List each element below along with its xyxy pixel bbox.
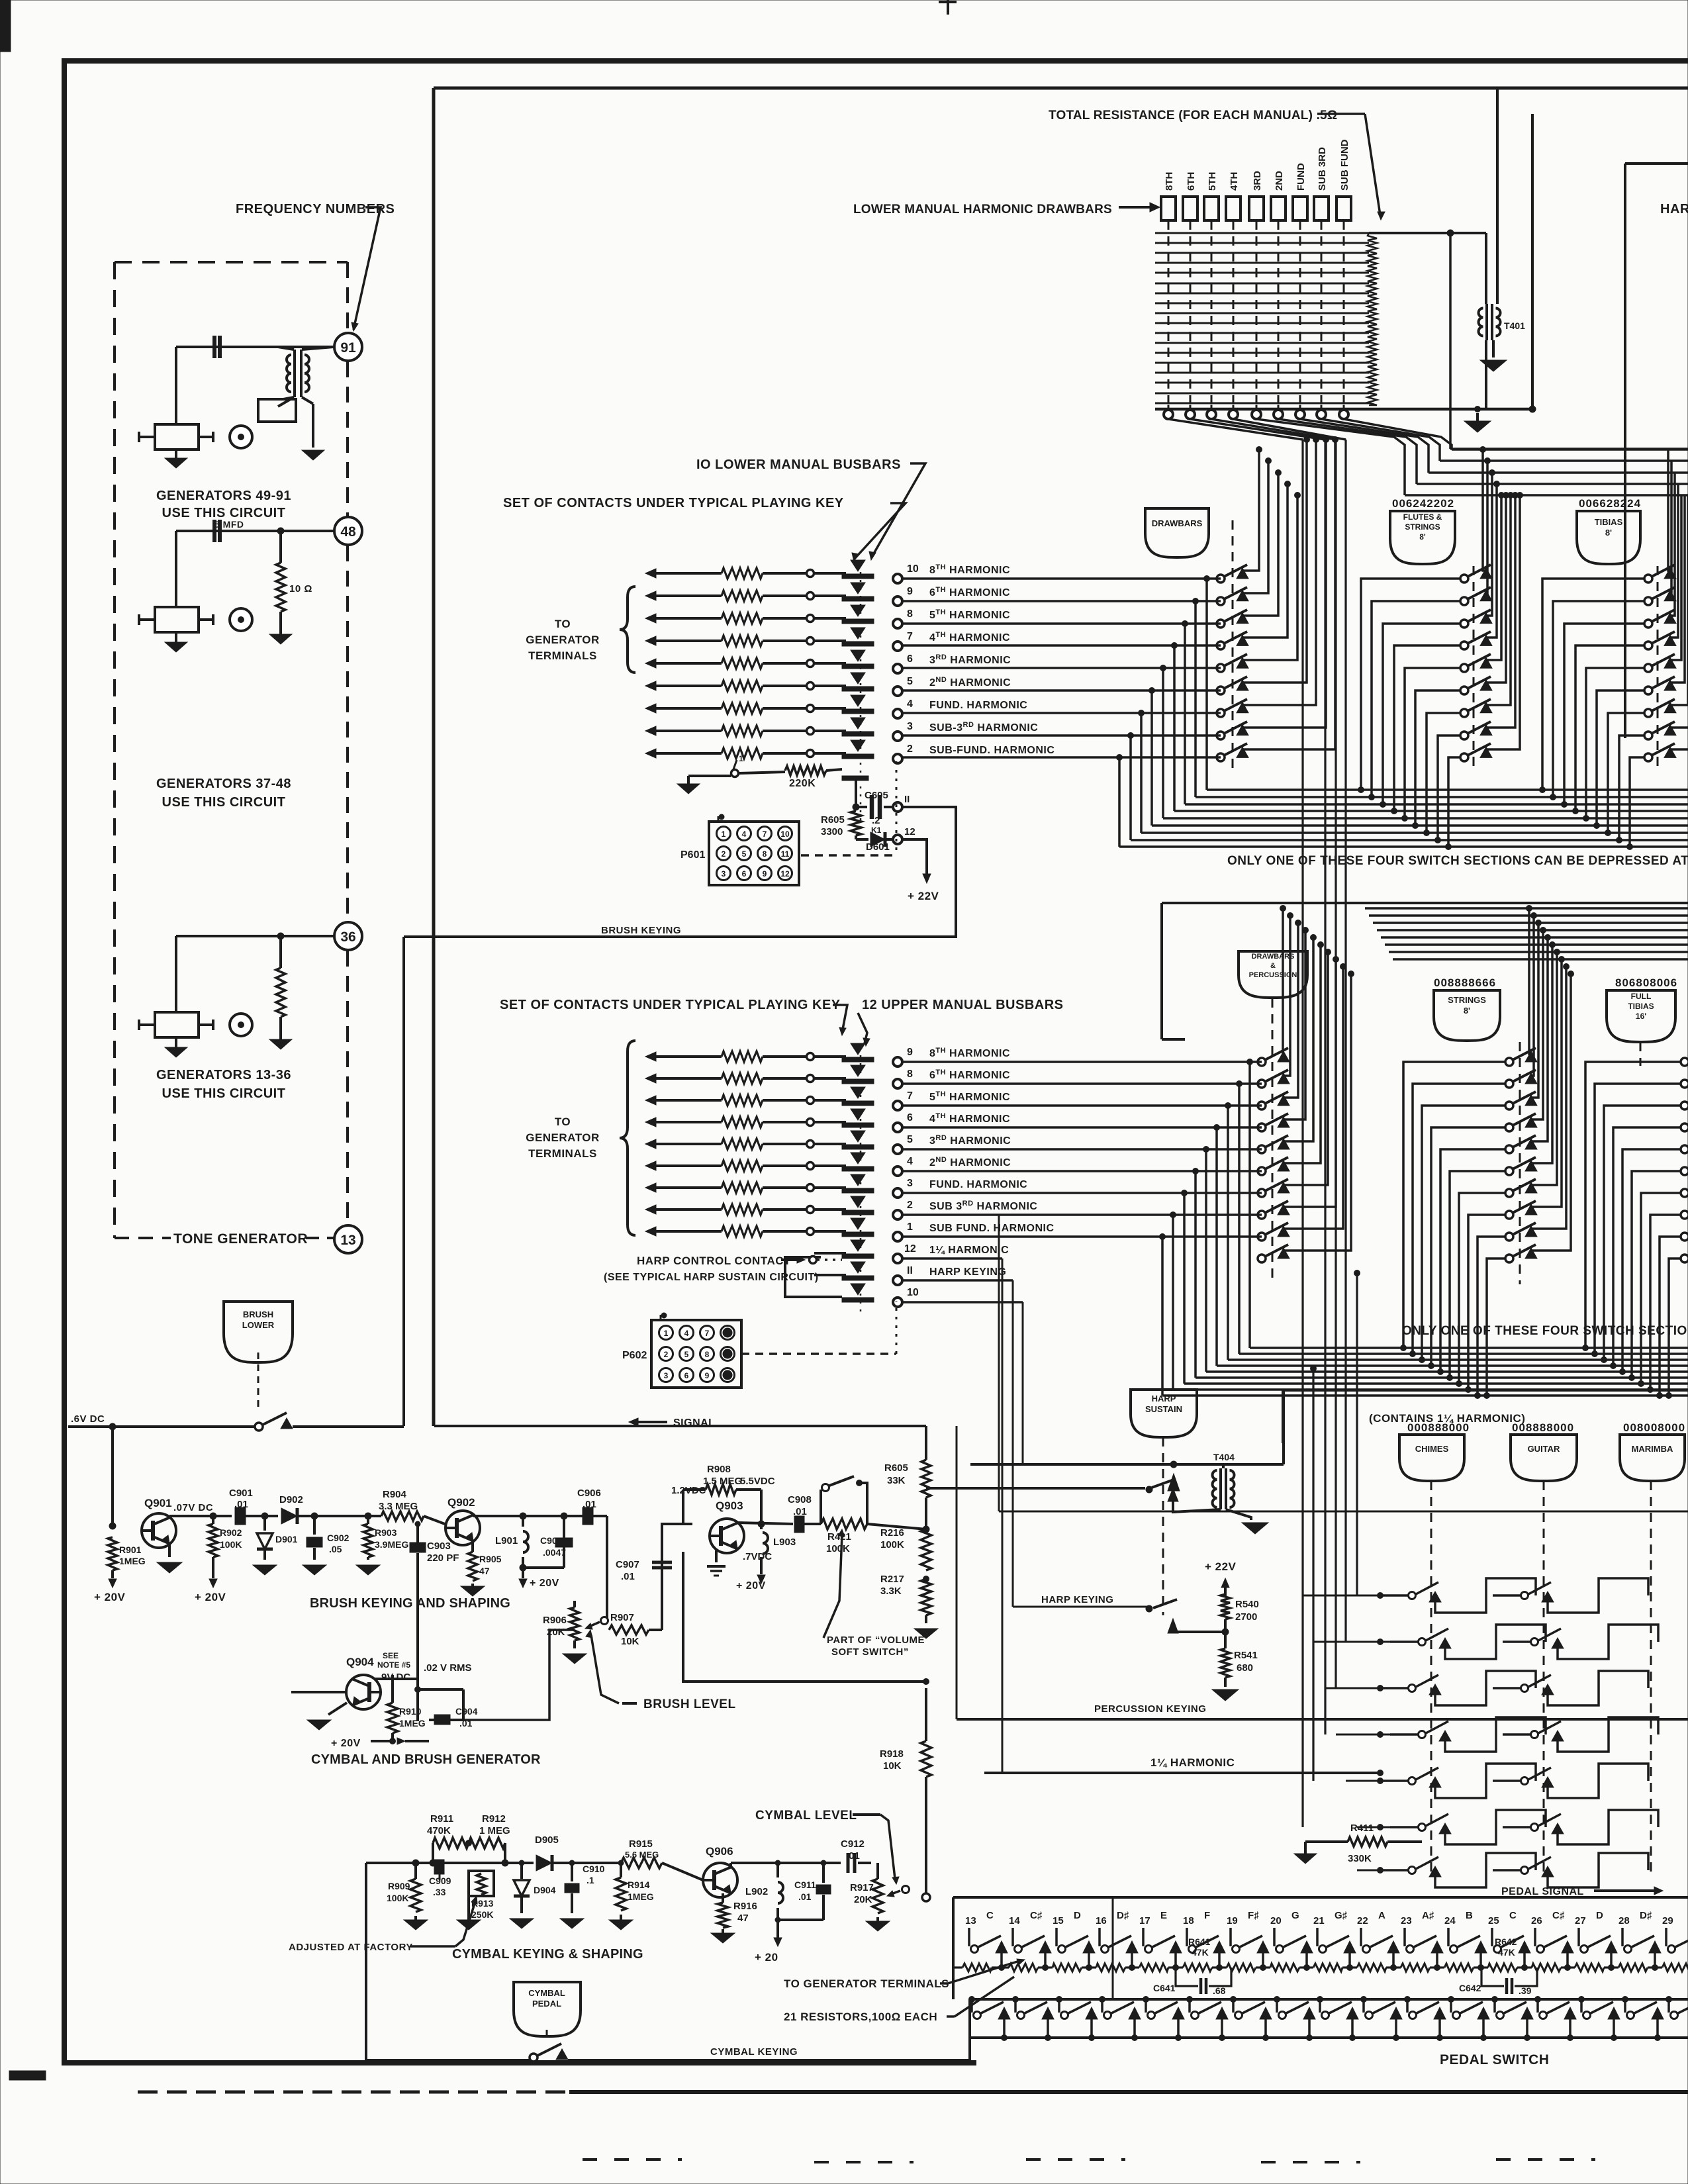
inductor L901 xyxy=(520,1513,526,1519)
svg-text:15: 15 xyxy=(1053,1915,1064,1926)
svg-text:TONE GENERATOR: TONE GENERATOR xyxy=(173,1231,308,1247)
svg-text:C910: C910 xyxy=(583,1864,605,1874)
wire Q903 collector xyxy=(738,1523,793,1524)
drawbar labels 8TH..SUB FUND (rotated) xyxy=(1164,172,1175,191)
svg-text:7: 7 xyxy=(907,1090,913,1102)
svg-text:R917: R917 xyxy=(850,1882,874,1893)
svg-text:MARIMBA: MARIMBA xyxy=(1632,1444,1673,1454)
Q902 collector to L901 C906 xyxy=(471,1514,473,1516)
svg-text:R918: R918 xyxy=(880,1748,904,1760)
upper manual contacts TO GENERATOR TERMINALS brace xyxy=(620,1041,635,1235)
page bottom rule xyxy=(138,2091,569,2094)
svg-text:8': 8' xyxy=(1419,532,1426,542)
svg-text:+ 22V: + 22V xyxy=(908,890,939,902)
svg-text:36: 36 xyxy=(340,929,355,945)
svg-text:47: 47 xyxy=(479,1566,490,1576)
svg-text:G♯: G♯ xyxy=(1335,1910,1348,1921)
svg-text:.05: .05 xyxy=(329,1544,342,1554)
svg-text:16: 16 xyxy=(1096,1915,1107,1926)
svg-text:680: 680 xyxy=(1237,1662,1253,1674)
svg-text:28: 28 xyxy=(1618,1915,1630,1926)
svg-text:R914: R914 xyxy=(628,1879,650,1890)
node 48 dashed net xyxy=(346,361,349,516)
svg-text:9: 9 xyxy=(907,586,913,597)
svg-text:Q906: Q906 xyxy=(706,1845,733,1858)
svg-text:+ 20V: + 20V xyxy=(195,1591,226,1603)
svg-text:SUB-3RD HARMONIC: SUB-3RD HARMONIC xyxy=(929,721,1038,734)
+20V arrow Q904 xyxy=(371,1740,393,1742)
svg-text:C605: C605 xyxy=(865,790,888,801)
svg-text:LOWER MANUAL HARMONIC DRAWB: LOWER MANUAL HARMONIC DRAWBARS xyxy=(853,203,1112,216)
svg-text:TIBIAS: TIBIAS xyxy=(1595,517,1623,527)
node circle 48 xyxy=(334,517,362,545)
node 36 dashed net xyxy=(346,546,349,922)
svg-text:GENERATOR: GENERATOR xyxy=(526,1131,600,1144)
wire brush keying xyxy=(402,937,405,1426)
svg-text:B: B xyxy=(1466,1910,1473,1921)
resistor R916 47 xyxy=(722,1893,724,1903)
svg-text:3.3K: 3.3K xyxy=(880,1586,902,1597)
svg-text:91: 91 xyxy=(340,340,356,356)
T404 primary top line xyxy=(970,1463,1284,1466)
svg-text:P601: P601 xyxy=(680,849,705,861)
svg-text:12 UPPER MANUAL BUSBARS: 12 UPPER MANUAL BUSBARS xyxy=(862,998,1064,1012)
svg-text:R541: R541 xyxy=(1234,1650,1258,1661)
+20 arrow under L902 xyxy=(776,1920,779,1938)
supply rail .6VDC to Q901 base xyxy=(111,1427,114,1523)
svg-text:PART OF “VOLUME: PART OF “VOLUME xyxy=(827,1635,925,1646)
diode D901 xyxy=(261,1513,268,1519)
svg-text:12: 12 xyxy=(904,826,915,837)
resistor R216 100K xyxy=(923,1526,929,1533)
svg-text:C♯: C♯ xyxy=(1552,1910,1565,1921)
svg-text:USE THIS CIRCUIT: USE THIS CIRCUIT xyxy=(162,795,286,810)
flutes bank output risers xyxy=(1483,450,1486,571)
svg-text:SOFT SWITCH”: SOFT SWITCH” xyxy=(831,1646,909,1658)
svg-text:C901: C901 xyxy=(229,1488,253,1499)
svg-text:.33: .33 xyxy=(433,1887,446,1897)
svg-text:10: 10 xyxy=(907,1287,919,1298)
pedal switch row 2 top bus xyxy=(970,1998,1688,2001)
svg-text:008008000: 008008000 xyxy=(1623,1421,1685,1434)
generator circuit 49-91 (oscillator, transformer, pickup) xyxy=(176,346,334,348)
resistor R909 100K xyxy=(412,1860,419,1866)
svg-text:.01: .01 xyxy=(793,1506,807,1517)
svg-text:IO LOWER MANUAL BUSBARS: IO LOWER MANUAL BUSBARS xyxy=(696,457,901,472)
svg-text:D904: D904 xyxy=(534,1885,556,1895)
svg-text:K1: K1 xyxy=(871,826,882,835)
resistor R903 3.9MEG xyxy=(365,1513,371,1519)
resistor R411 330K xyxy=(1294,1854,1317,1864)
svg-text:GENERATOR: GENERATOR xyxy=(526,634,600,646)
svg-text:D♯: D♯ xyxy=(1117,1910,1129,1921)
svg-text:.0047: .0047 xyxy=(543,1547,566,1558)
brush lower keying switch xyxy=(68,1425,255,1428)
border frame left xyxy=(62,61,67,2064)
svg-text:D905: D905 xyxy=(535,1834,559,1846)
upper manual contact row 11 xyxy=(851,1262,865,1273)
svg-text:D: D xyxy=(1596,1910,1603,1921)
resistor R605 3300 xyxy=(851,811,861,835)
svg-text:.02 V RMS: .02 V RMS xyxy=(424,1662,472,1674)
svg-text:4: 4 xyxy=(742,830,747,839)
svg-text:4TH: 4TH xyxy=(1229,172,1240,191)
switch bank under TIBIAS xyxy=(1644,575,1652,583)
svg-text:PEDAL SIGNAL: PEDAL SIGNAL xyxy=(1501,1886,1584,1897)
svg-text:CYMBAL KEYING: CYMBAL KEYING xyxy=(710,2046,798,2058)
potentiometer R917 20K xyxy=(872,1879,883,1913)
svg-text:33K: 33K xyxy=(887,1475,906,1486)
pedal switch row 2 bottom bus xyxy=(970,2036,1688,2039)
svg-text:9: 9 xyxy=(705,1371,710,1380)
svg-text:19: 19 xyxy=(1227,1915,1238,1926)
svg-text:R642: R642 xyxy=(1495,1936,1517,1947)
svg-text:C912: C912 xyxy=(841,1838,865,1850)
upper manual contact row 9 xyxy=(645,1052,656,1061)
svg-text:Q901: Q901 xyxy=(144,1497,172,1509)
Q904 base feed xyxy=(291,1691,346,1693)
lower manual row feeds to banks xyxy=(902,577,1221,580)
svg-text:1: 1 xyxy=(664,1329,669,1338)
svg-text:R540: R540 xyxy=(1235,1599,1259,1610)
svg-text:100K: 100K xyxy=(880,1539,904,1550)
lower manual contact row 7 (4THHARMONIC) xyxy=(645,636,656,645)
svg-text:10 Ω: 10 Ω xyxy=(289,583,312,594)
pickup coil symbol G1 xyxy=(230,426,252,448)
svg-text:12: 12 xyxy=(780,869,790,878)
svg-text:DRAWBARS: DRAWBARS xyxy=(1252,953,1295,961)
connector P602 xyxy=(651,1320,741,1388)
svg-text:GENERATORS 37-48: GENERATORS 37-48 xyxy=(156,777,291,791)
upper harmonic bus lines from upper drawbar matrix xyxy=(1365,907,1688,910)
main brush line xyxy=(169,1515,232,1517)
svg-text:12: 12 xyxy=(904,1243,916,1255)
svg-text:D: D xyxy=(1074,1910,1081,1921)
svg-text:+ 20V: + 20V xyxy=(736,1580,766,1591)
svg-text:A♯: A♯ xyxy=(1422,1910,1434,1921)
leader frequency numbers to node 91 xyxy=(353,207,381,330)
svg-text:+ 20V: + 20V xyxy=(331,1738,361,1749)
label TONE GENERATOR xyxy=(115,1237,171,1239)
switch bank under STRINGS xyxy=(1505,1058,1513,1066)
svg-text:100K: 100K xyxy=(220,1539,242,1550)
svg-text:16': 16' xyxy=(1636,1012,1646,1021)
capacitor C910 .1 xyxy=(569,1860,575,1866)
svg-text:R217: R217 xyxy=(880,1574,904,1585)
svg-text:10K: 10K xyxy=(621,1636,639,1647)
transformer T-osc xyxy=(293,350,296,397)
svg-text:.2: .2 xyxy=(872,815,880,826)
percussion section top boundary xyxy=(1283,1389,1688,1392)
full tibias bank input risers xyxy=(1583,1345,1589,1351)
drawbar matrix right resistance zig-zag xyxy=(1368,233,1377,405)
svg-text:T401: T401 xyxy=(1504,320,1525,331)
resistor R905 47 xyxy=(471,1543,474,1552)
svg-text:L903: L903 xyxy=(773,1537,796,1548)
svg-text:SEE: SEE xyxy=(383,1651,399,1660)
percussion keying tap xyxy=(1173,1631,1225,1633)
svg-text:Q903: Q903 xyxy=(716,1499,743,1512)
svg-text:ADJUSTED AT FACTORY: ADJUSTED AT FACTORY xyxy=(289,1942,413,1953)
upper manual contact row 6 xyxy=(645,1117,656,1127)
svg-text:SIGNAL: SIGNAL xyxy=(673,1417,715,1429)
volume soft switch xyxy=(820,1490,822,1524)
svg-text:000888000: 000888000 xyxy=(1407,1421,1470,1434)
Q904 collector to vertical from C903 xyxy=(375,1678,418,1680)
node 13 dashed net xyxy=(346,951,349,1225)
svg-text:STRINGS: STRINGS xyxy=(1448,995,1486,1005)
lower manual key contacts TO GENERATOR TERMINALS brace xyxy=(620,587,635,673)
svg-text:R915: R915 xyxy=(629,1838,653,1850)
svg-text:HAR: HAR xyxy=(1660,202,1688,216)
switch bank under FLUTES & STRINGS xyxy=(1460,575,1468,583)
lower manual contact row 6 (3RDHARMONIC) xyxy=(645,659,656,668)
svg-text:29: 29 xyxy=(1662,1915,1673,1926)
svg-text:SUB FUND: SUB FUND xyxy=(1339,139,1350,191)
lower manual taps to collector bundle xyxy=(1204,576,1210,582)
svg-text:9V DC: 9V DC xyxy=(381,1672,410,1683)
svg-text:GENERATORS 13-36: GENERATORS 13-36 xyxy=(156,1068,291,1082)
svg-text:13: 13 xyxy=(965,1915,976,1926)
potentiometer R913 250K xyxy=(468,1843,469,1871)
svg-text:R641: R641 xyxy=(1188,1936,1211,1947)
svg-text:DRAWBARS: DRAWBARS xyxy=(1152,518,1203,528)
upper switch section box xyxy=(1162,902,1688,904)
ground under oscillator xyxy=(302,450,324,460)
connector P601 xyxy=(709,822,799,885)
svg-text:3: 3 xyxy=(907,1178,913,1189)
svg-text:HARP: HARP xyxy=(1152,1394,1176,1403)
matrix feed vertical to .5 ohm xyxy=(1531,114,1534,409)
svg-text:3300: 3300 xyxy=(821,826,843,837)
svg-text:FUND: FUND xyxy=(1295,163,1307,191)
cymbal keying wire xyxy=(366,2059,530,2062)
svg-text:NOTE #5: NOTE #5 xyxy=(377,1660,410,1670)
label BRUSH LEVEL xyxy=(622,1702,637,1705)
svg-text:21 RESISTORS,100Ω EACH: 21 RESISTORS,100Ω EACH xyxy=(784,2011,937,2023)
lower manual contact row 2 (SUB-FUND.HARMONIC) xyxy=(645,749,656,758)
midline long feed verticals xyxy=(956,1426,958,1719)
lower manual contact row 3 (SUB-3RDHARMONIC) xyxy=(645,726,656,736)
capacitor C605 .2 xyxy=(856,806,867,808)
ground at matrix bus end xyxy=(1475,406,1481,412)
capacitor C911 .01 xyxy=(821,1860,826,1866)
svg-text:C906: C906 xyxy=(577,1488,601,1499)
svg-text:3.9MEG: 3.9MEG xyxy=(375,1539,408,1550)
svg-text:.6V DC: .6V DC xyxy=(71,1413,105,1425)
svg-text:C907: C907 xyxy=(616,1559,639,1570)
svg-text:R911: R911 xyxy=(430,1813,453,1825)
oscillator box xyxy=(258,399,296,422)
svg-text:7: 7 xyxy=(763,830,767,839)
svg-text:R912: R912 xyxy=(482,1813,506,1825)
svg-text:+ 22V: + 22V xyxy=(1205,1560,1237,1573)
svg-text:C: C xyxy=(986,1910,994,1921)
svg-text:R908: R908 xyxy=(707,1464,731,1475)
svg-text:C903: C903 xyxy=(427,1541,451,1552)
upper manual contact row 5 xyxy=(645,1139,656,1149)
svg-text:BRUSH: BRUSH xyxy=(243,1309,273,1319)
svg-text:CYMBAL: CYMBAL xyxy=(528,1988,565,1998)
svg-text:TO GENERATOR TERMINALS: TO GENERATOR TERMINALS xyxy=(784,1977,949,1990)
svg-text:SET OF CONTACTS UNDER TYPI: SET OF CONTACTS UNDER TYPICAL PLAYING KE… xyxy=(503,496,844,510)
svg-text:R901: R901 xyxy=(119,1544,142,1555)
ground under T401 xyxy=(1480,360,1507,371)
switch bank under DRAWBARS xyxy=(1217,575,1225,583)
svg-text:TO: TO xyxy=(555,618,571,630)
svg-text:R910: R910 xyxy=(399,1706,422,1717)
Q904 emitter ground xyxy=(328,1703,347,1715)
svg-text:HARP KEYING: HARP KEYING xyxy=(1041,1594,1113,1605)
strings bank input risers xyxy=(1401,1345,1407,1351)
tone generator dashed enclosure xyxy=(115,261,348,263)
upper manual busbar dotted line xyxy=(860,1047,862,1317)
svg-text:CYMBAL KEYING & SHAPING: CYMBAL KEYING & SHAPING xyxy=(452,1947,643,1962)
upper manual contact row 2 xyxy=(645,1205,656,1214)
switch bank under DRAWBARS & PERCUSSION xyxy=(1258,1058,1266,1066)
svg-text:.1: .1 xyxy=(586,1875,594,1885)
inductor L903 xyxy=(758,1521,765,1527)
capacitor C905 .0047 xyxy=(523,1566,564,1569)
svg-text:D902: D902 xyxy=(279,1494,303,1505)
svg-text:R916: R916 xyxy=(733,1901,757,1912)
svg-text:48: 48 xyxy=(340,524,356,540)
svg-text:.39: .39 xyxy=(1519,1985,1532,1996)
svg-text:250K: 250K xyxy=(471,1909,493,1920)
node 91 dashed net xyxy=(346,262,349,332)
svg-text:ONLY ONE OF THESE FOUR SWITC: ONLY ONE OF THESE FOUR SWITCH SECTIONS C… xyxy=(1227,854,1688,868)
diode D601 K1 xyxy=(855,835,857,839)
busbar net dashed to P601 xyxy=(896,761,898,855)
svg-text:3: 3 xyxy=(722,869,726,878)
resistor R914 1MEG xyxy=(618,1860,624,1866)
cymbal input loop xyxy=(365,1863,367,2060)
svg-text:USE THIS CIRCUIT: USE THIS CIRCUIT xyxy=(162,506,286,520)
T404 secondary bottom xyxy=(1173,1500,1221,1512)
svg-text:SUB 3RD: SUB 3RD xyxy=(1317,147,1328,191)
drawbars bank output risers xyxy=(1243,450,1259,571)
resistor R421 100K xyxy=(821,1519,867,1529)
svg-text:27: 27 xyxy=(1575,1915,1586,1926)
svg-text:PEDAL SWITCH: PEDAL SWITCH xyxy=(1440,2052,1549,2067)
svg-text:8': 8' xyxy=(1605,528,1612,538)
svg-text:20K: 20K xyxy=(854,1894,872,1905)
svg-text:1: 1 xyxy=(739,754,743,763)
tablet stems (upper banks) xyxy=(1272,998,1274,1284)
leader total resistance xyxy=(1317,113,1365,115)
resistor R902 100K xyxy=(210,1513,216,1519)
percussion switch rows xyxy=(1303,1595,1380,1597)
potentiometer R906 20K xyxy=(570,1607,579,1640)
svg-text:5: 5 xyxy=(907,676,913,687)
svg-text:BRUSH KEYING AND SHAPING: BRUSH KEYING AND SHAPING xyxy=(310,1596,510,1611)
svg-text:13: 13 xyxy=(340,1233,355,1248)
svg-text:R905: R905 xyxy=(479,1554,502,1564)
svg-text:5: 5 xyxy=(907,1134,913,1145)
svg-text:4: 4 xyxy=(907,1156,913,1167)
svg-text:47K: 47K xyxy=(1192,1947,1209,1958)
svg-text:18: 18 xyxy=(1183,1915,1194,1926)
svg-text:TIBIAS: TIBIAS xyxy=(1628,1002,1654,1011)
tibias bank output risers xyxy=(1668,450,1670,571)
ground under G1 can xyxy=(175,450,177,458)
wire R216 tap to R918 xyxy=(926,1529,947,1579)
svg-text:9: 9 xyxy=(907,1047,913,1058)
svg-text:C902: C902 xyxy=(327,1533,350,1543)
svg-text:330K: 330K xyxy=(1348,1853,1372,1864)
svg-text:20: 20 xyxy=(1270,1915,1282,1926)
svg-text:R421: R421 xyxy=(827,1531,851,1543)
diode D904 xyxy=(519,1860,524,1866)
svg-text:008888000: 008888000 xyxy=(1512,1421,1574,1434)
svg-text:8TH: 8TH xyxy=(1164,172,1175,191)
generator circuit 13-36 xyxy=(176,935,334,937)
generator can G1 xyxy=(155,424,199,450)
svg-text:C911: C911 xyxy=(794,1879,816,1890)
svg-text:Q902: Q902 xyxy=(447,1496,475,1509)
svg-text:R906: R906 xyxy=(543,1615,567,1626)
svg-text:6: 6 xyxy=(907,653,913,665)
svg-text:25: 25 xyxy=(1488,1915,1499,1926)
lower manual keying output bar xyxy=(842,776,868,781)
wire R918 to cymbal level xyxy=(925,1860,927,1893)
svg-text:6: 6 xyxy=(742,869,747,878)
svg-text:FUND. HARMONIC: FUND. HARMONIC xyxy=(929,1179,1027,1190)
svg-text:Q904: Q904 xyxy=(346,1656,374,1668)
lower manual contact row 10 (8THHARMONIC) xyxy=(645,569,656,578)
svg-text:SUSTAIN: SUSTAIN xyxy=(1145,1404,1182,1414)
svg-text:21: 21 xyxy=(1313,1915,1325,1926)
svg-text:FREQUENCY NUMBERS: FREQUENCY NUMBERS xyxy=(236,202,395,216)
percussion feed verticals xyxy=(1301,440,1303,1827)
svg-text:R605: R605 xyxy=(884,1462,908,1474)
svg-text:.7VDC: .7VDC xyxy=(743,1551,772,1562)
svg-text:TOTAL RESISTANCE (FOR EACH: TOTAL RESISTANCE (FOR EACH MANUAL) .5Ω xyxy=(1049,109,1337,122)
brush keying loop from terminal 11 xyxy=(404,807,956,937)
inner box left edge xyxy=(432,88,436,1426)
svg-text:D601: D601 xyxy=(866,841,890,853)
svg-text:FUND. HARMONIC: FUND. HARMONIC xyxy=(929,700,1027,711)
upper manual contact row 10 xyxy=(851,1284,865,1295)
svg-text:11: 11 xyxy=(781,849,790,859)
svg-text:23: 23 xyxy=(1401,1915,1412,1926)
svg-text:HARP KEYING: HARP KEYING xyxy=(929,1266,1006,1278)
resistor R910 1MEG xyxy=(381,1681,393,1682)
svg-text:7: 7 xyxy=(907,631,913,642)
svg-text:R411: R411 xyxy=(1350,1823,1374,1834)
svg-text:SET OF CONTACTS UNDER TYPI: SET OF CONTACTS UNDER TYPICAL PLAYING KE… xyxy=(500,998,841,1012)
drawbar terminals xyxy=(1168,405,1170,408)
drawbar matrix horizontal taps xyxy=(1155,232,1369,234)
svg-text:+ 20: + 20 xyxy=(755,1951,778,1964)
svg-text:220 PF: 220 PF xyxy=(427,1552,459,1564)
svg-text:C♯: C♯ xyxy=(1030,1910,1043,1921)
border frame bottom xyxy=(62,2060,976,2065)
svg-text:1MEG: 1MEG xyxy=(399,1718,426,1729)
svg-text:5: 5 xyxy=(684,1350,689,1359)
svg-text:II: II xyxy=(907,1265,913,1276)
svg-text:10K: 10K xyxy=(883,1760,902,1772)
ground under Q901 emitter xyxy=(168,1544,171,1557)
upper manual row feeds xyxy=(902,1061,1262,1063)
svg-text:26: 26 xyxy=(1531,1915,1542,1926)
capacitor C904 .01 xyxy=(417,1721,418,1741)
svg-text:10: 10 xyxy=(780,830,790,839)
svg-text:006242202: 006242202 xyxy=(1392,497,1454,510)
svg-text:5: 5 xyxy=(742,849,747,859)
svg-text:470K: 470K xyxy=(427,1825,451,1836)
upper manual contact row 1 xyxy=(645,1227,656,1236)
